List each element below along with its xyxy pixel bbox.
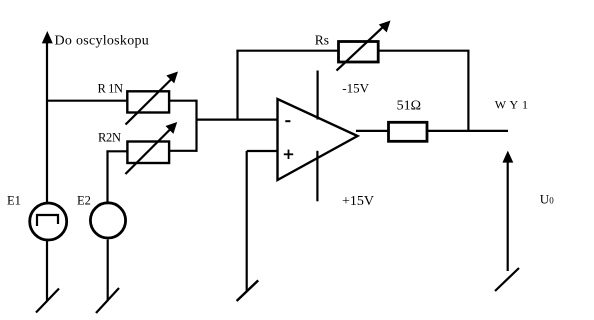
ground E1 <box>36 289 59 313</box>
wire op-amp output <box>356 130 508 132</box>
svg-text:E1: E1 <box>7 193 21 207</box>
R1N wiper arrow <box>126 80 172 125</box>
source E1 <box>30 203 67 240</box>
resistor R2N <box>127 142 169 164</box>
wire feedback right vertical <box>467 51 469 131</box>
R2N wiper arrow <box>125 130 170 175</box>
E1 pulse symbol <box>37 215 58 226</box>
wire R2N right <box>169 150 197 152</box>
wire R2N left <box>106 150 127 152</box>
ground U0 <box>495 268 519 291</box>
svg-text:Do oscyloskopu: Do oscyloskopu <box>55 34 150 49</box>
svg-text:E2: E2 <box>77 193 91 207</box>
wire to inverting input <box>197 118 278 120</box>
wire non-inverting down <box>246 151 248 291</box>
wire junction vertical <box>195 100 197 152</box>
resistor Rs <box>339 42 379 63</box>
wire E2 bottom <box>107 240 109 301</box>
wire R1N right <box>169 100 197 102</box>
ground (op-amp + input) <box>237 280 259 301</box>
wire E2 top <box>106 151 108 202</box>
wire R1N left <box>46 100 127 102</box>
svg-text:R 1N: R 1N <box>98 81 124 95</box>
wire feedback left vertical <box>236 51 238 120</box>
svg-text:Rs: Rs <box>315 32 329 47</box>
arrow U0 output voltage <box>507 159 509 271</box>
op-amp minus sign <box>285 120 290 122</box>
wire to non-inverting input <box>247 150 278 152</box>
svg-text:+15V: +15V <box>342 194 374 209</box>
resistor 51 ohm <box>389 122 428 141</box>
arrowhead Do oscyloskopu <box>42 31 53 43</box>
wire to oscilloscope (vertical from arrow down to E1) <box>46 40 48 203</box>
ground E2 <box>96 288 119 313</box>
svg-text:W Y 1: W Y 1 <box>495 98 529 112</box>
wire +15V supply <box>316 151 318 202</box>
svg-text:51Ω: 51Ω <box>397 98 421 113</box>
resistor R1N <box>127 91 169 112</box>
wire -15V supply <box>317 71 319 120</box>
wire E1 bottom <box>46 241 48 301</box>
Rs wiper arrow <box>337 27 384 71</box>
wire feedback top horizontal <box>236 50 469 52</box>
source E2 <box>90 203 125 238</box>
svg-text:R2N: R2N <box>98 131 121 145</box>
svg-text:-15V: -15V <box>342 81 369 96</box>
op-amp plus sign <box>284 153 293 155</box>
op-amp U1 <box>278 99 358 180</box>
